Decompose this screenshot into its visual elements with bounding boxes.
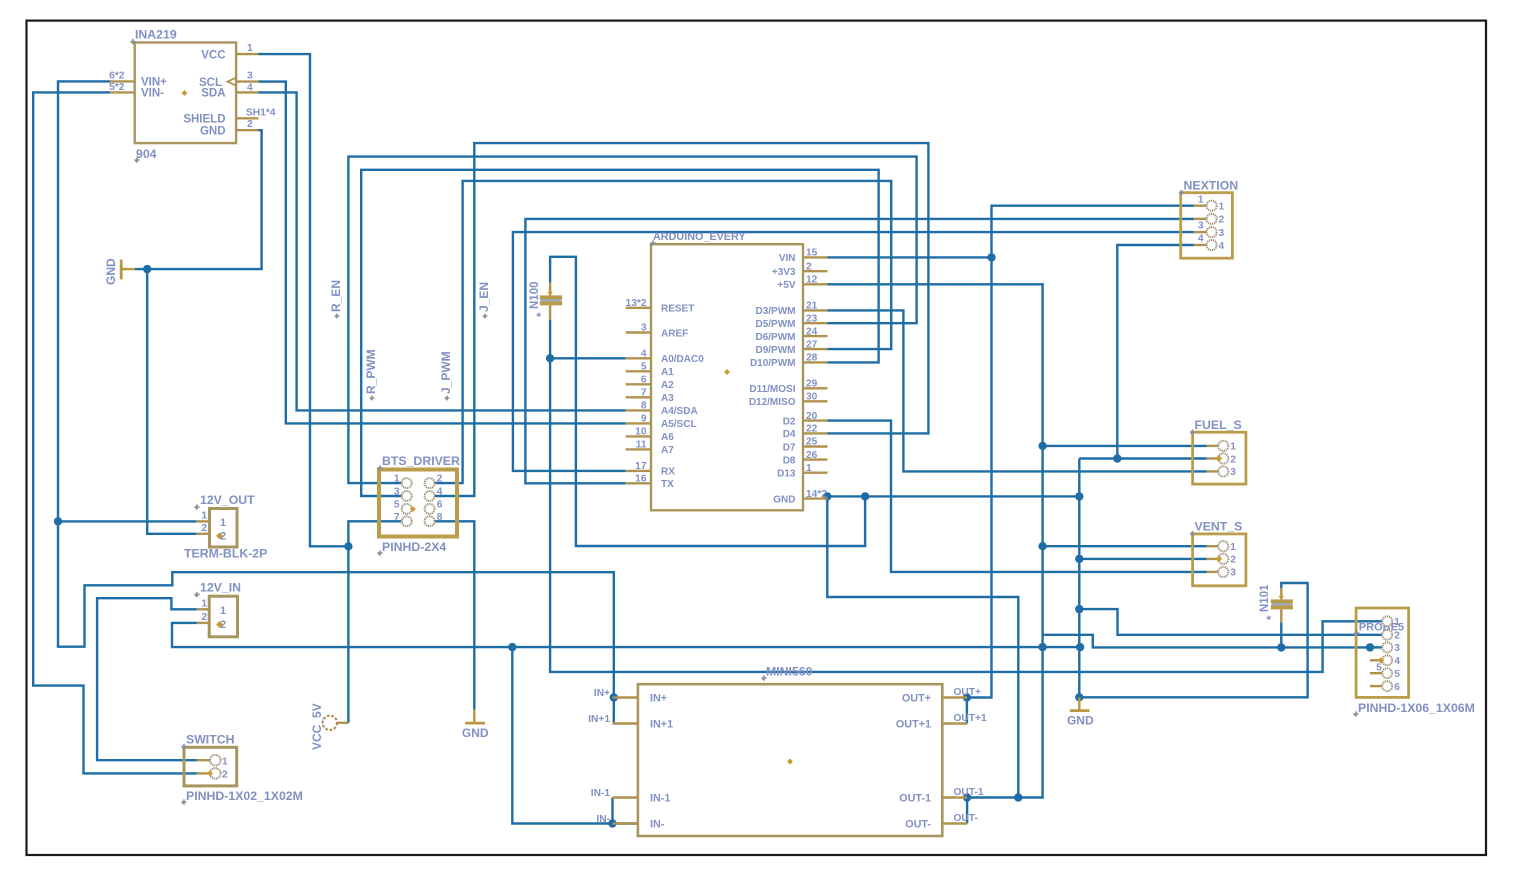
BTS_DRIVER pad pin2	[425, 478, 435, 488]
ARDUINO pin RESET stub	[626, 307, 651, 309]
wire GND branch to 12V_OUT pin2	[147, 269, 196, 534]
ARDUINO pin D9/PWM stub	[803, 348, 828, 350]
FUEL_S title	[1190, 418, 1242, 435]
svg-text:3: 3	[1219, 228, 1225, 239]
junction GND long row mid	[1038, 643, 1046, 651]
ARDUINO pin A1 stub	[626, 370, 651, 372]
VENT_S pin number 2	[1230, 555, 1236, 566]
ARDUINO pin name D2	[783, 416, 796, 427]
svg-text:1: 1	[247, 43, 253, 54]
svg-text:5: 5	[1376, 662, 1382, 673]
wire Arduino GND pin row	[827, 495, 1079, 497]
svg-text:1: 1	[1394, 617, 1400, 628]
VENT_S pin1 lead	[1207, 545, 1219, 547]
svg-text:2: 2	[1394, 631, 1400, 642]
SWITCH pin number 2	[222, 770, 228, 781]
junction OUT-1	[963, 793, 971, 801]
FUEL_S pin3 lead	[1207, 470, 1219, 472]
svg-text:VIN-: VIN-	[141, 88, 164, 100]
ARDUINO pin D5/PWM stub	[803, 322, 828, 324]
svg-text:3: 3	[1230, 568, 1236, 579]
NEXTION title	[1179, 179, 1238, 196]
MINI560 pin name OUT+	[902, 693, 931, 705]
svg-text:4: 4	[641, 349, 647, 360]
12V_OUT pin label 1 inside	[220, 517, 226, 529]
MINI560 pin name OUT+1	[896, 719, 931, 731]
svg-text:D6/PWM: D6/PWM	[756, 332, 796, 343]
ARDUINO pin name D11/MOSI	[749, 384, 795, 395]
svg-text:OUT-1: OUT-1	[954, 787, 984, 798]
svg-text:3: 3	[641, 323, 647, 334]
svg-text:7: 7	[394, 512, 400, 523]
svg-text:5: 5	[1394, 669, 1400, 680]
BTS_DRIVER pad pin7	[402, 516, 412, 526]
wire A0 row	[550, 357, 626, 359]
svg-text:J_PWM: J_PWM	[439, 351, 453, 394]
MINI560 title	[761, 665, 812, 681]
INA219 pin number 3	[247, 71, 253, 82]
svg-text:OUT+: OUT+	[902, 693, 931, 705]
svg-text:29: 29	[806, 379, 818, 390]
svg-text:20: 20	[806, 411, 818, 422]
BTS_DRIVER pin number 4	[437, 487, 443, 498]
svg-text:D5/PWM: D5/PWM	[756, 319, 796, 330]
INA219 pin VCC stub	[236, 53, 258, 55]
wire FUEL_S pin2 row	[1079, 457, 1207, 459]
VENT_S pin number 1	[1230, 542, 1236, 553]
ground symbol mid	[465, 710, 485, 723]
BTS_DRIVER pad pin5	[402, 504, 412, 514]
IC U1 INA219 body	[135, 43, 236, 144]
ARDUINO pin number 14*2	[806, 489, 827, 500]
ARDUINO pin number 27	[806, 339, 818, 350]
INA219 pin GND stub	[236, 129, 258, 131]
FUEL_S pad pin2	[1218, 453, 1228, 463]
ARDUINO pin number 13*2	[626, 298, 647, 309]
wire A0 net vertical to PROBE pin1	[550, 320, 1382, 672]
svg-text:8: 8	[437, 512, 443, 523]
svg-text:3: 3	[1394, 643, 1400, 654]
svg-text:IN-: IN-	[596, 814, 610, 825]
ARDUINO pin A7 stub	[626, 448, 651, 450]
svg-text:OUT+: OUT+	[954, 687, 982, 698]
MINI560 pin IN+ stub	[613, 696, 638, 698]
wire +5V net (+5V pin down to OUT-1 row)	[828, 284, 1043, 797]
svg-text:7: 7	[641, 388, 647, 399]
svg-text:16: 16	[635, 474, 647, 485]
ARDUINO pin name A4/SDA	[661, 406, 698, 417]
PROBE pad pin1	[1382, 616, 1392, 626]
12V_IN origin mark	[216, 621, 223, 628]
wire D2 to VENT_S pin3	[828, 421, 1207, 572]
NEXTION pad pin1	[1207, 201, 1217, 211]
svg-text:4: 4	[1394, 656, 1400, 667]
capacitor N100 plates	[540, 295, 562, 305]
ARDUINO pin name D6/PWM	[756, 332, 796, 343]
svg-text:PINHD-1X02_1X02M: PINHD-1X02_1X02M	[186, 789, 303, 803]
ARDUINO pin number 24	[806, 326, 818, 337]
wire RX to NEXTION pin3	[513, 232, 1194, 471]
wire SCL net INA219 to A5	[259, 82, 626, 424]
MINI560 net label IN+1	[588, 714, 610, 725]
BTS_DRIVER pin number 7	[394, 512, 400, 523]
PROBE pad pin3	[1382, 642, 1392, 652]
svg-text:D3/PWM: D3/PWM	[756, 306, 796, 317]
svg-text:2: 2	[806, 261, 812, 272]
MINI560 net label OUT-	[954, 813, 978, 824]
BTS_DRIVER pin number 2	[437, 474, 443, 485]
svg-text:D2: D2	[783, 416, 796, 427]
svg-text:D4: D4	[783, 429, 796, 440]
svg-text:VIN: VIN	[779, 253, 796, 264]
junction PROBE pin3	[1366, 643, 1374, 651]
wire 12V_OUT pin1 row	[58, 520, 196, 522]
ARDUINO pin name D13	[777, 469, 796, 480]
ARDUINO pin name A6	[661, 432, 674, 443]
wire IN- to IN-1	[611, 798, 613, 824]
svg-text:+3V3: +3V3	[772, 267, 796, 278]
svg-text:5: 5	[394, 499, 400, 510]
svg-text:OUT-1: OUT-1	[899, 793, 931, 805]
MINI560 net label IN-1	[591, 788, 611, 799]
svg-text:A5/SCL: A5/SCL	[661, 419, 697, 430]
capacitor N101 plates	[1271, 599, 1293, 609]
svg-text:8: 8	[641, 401, 647, 412]
svg-text:4: 4	[247, 82, 253, 93]
wire GND to PROBE pin2	[1079, 609, 1382, 635]
wire GND long row from 12V_IN pin2	[172, 623, 1080, 647]
svg-text:5*2: 5*2	[109, 82, 125, 93]
ARDUINO pin A0/DAC0 stub	[626, 357, 651, 359]
svg-text:14*2: 14*2	[806, 489, 827, 500]
svg-text:2: 2	[222, 770, 228, 781]
svg-text:13*2: 13*2	[626, 298, 647, 309]
svg-text:1: 1	[1198, 194, 1204, 205]
svg-text:3: 3	[1198, 221, 1204, 232]
N100 label	[529, 282, 541, 310]
svg-text:30: 30	[806, 392, 818, 403]
svg-text:BTS_DRIVER: BTS_DRIVER	[382, 454, 460, 468]
svg-text:2: 2	[437, 474, 443, 485]
connector X1 12V_OUT body	[210, 509, 238, 548]
N101 label	[1259, 584, 1271, 612]
NEXTION pin number 3 left	[1198, 221, 1204, 232]
ARDUINO pin D12/MISO stub	[803, 400, 828, 402]
PROBE pin number 5 left	[1376, 662, 1382, 673]
NEXTION pin number 3 right	[1219, 228, 1225, 239]
ARDUINO pin D8 stub	[803, 458, 828, 460]
svg-text:RESET: RESET	[661, 304, 694, 315]
svg-text:A2: A2	[661, 380, 674, 391]
ARDUINO pin A6 stub	[626, 435, 651, 437]
svg-text:TERM-BLK-2P: TERM-BLK-2P	[184, 547, 267, 561]
ARDUINO pin name VIN	[779, 253, 796, 264]
junction IN- branch	[508, 643, 516, 651]
svg-text:D12/MISO: D12/MISO	[749, 397, 796, 408]
junction GND PROBE2 feed	[1075, 605, 1083, 613]
ARDUINO pin name D12/MISO	[749, 397, 796, 408]
ground label left	[104, 258, 118, 285]
wire VCC_5V symbol riser	[347, 546, 349, 723]
N101 bottom lead	[1280, 609, 1282, 622]
PROBE pin number 6 right	[1394, 682, 1400, 693]
INA219 pin number 2	[247, 119, 253, 130]
ARDUINO pin number 16	[635, 474, 647, 485]
FUEL_S origin mark	[1215, 455, 1222, 462]
svg-text:1: 1	[1219, 202, 1225, 213]
svg-text:OUT+1: OUT+1	[954, 713, 987, 724]
12V_OUT pin1 stub	[196, 520, 209, 522]
junction Arduino GND row left	[861, 492, 869, 500]
svg-text:D13: D13	[777, 469, 796, 480]
PROBE pin6 stub	[1370, 685, 1382, 687]
svg-text:GND: GND	[462, 726, 489, 740]
svg-text:27: 27	[806, 339, 818, 350]
12V_IN pin1 stub	[197, 608, 209, 610]
VENT_S pad pin3	[1218, 567, 1228, 577]
ARDUINO pin number 26	[806, 450, 818, 461]
junction GND left	[143, 265, 151, 273]
supply symbol VCC_5V	[323, 716, 349, 730]
junction A0	[546, 354, 554, 362]
svg-text:+5V: +5V	[777, 280, 795, 291]
NEXTION pin number 4 right	[1219, 241, 1225, 252]
junction FUEL1	[1038, 442, 1046, 450]
svg-text:R_EN: R_EN	[329, 280, 343, 312]
svg-text:21: 21	[806, 301, 818, 312]
junction GND right row	[1075, 492, 1083, 500]
svg-text:6: 6	[641, 375, 647, 386]
svg-text:*: *	[536, 312, 548, 317]
ARDUINO pin number 22	[806, 424, 818, 435]
PROBE pin number 4 right	[1394, 656, 1400, 667]
FUEL_S pin2 lead	[1207, 457, 1219, 459]
svg-text:2: 2	[1219, 215, 1225, 226]
MINI560 net label OUT+1	[954, 713, 987, 724]
svg-text:25: 25	[806, 437, 818, 448]
ARDUINO pin number 12	[806, 275, 818, 286]
FUEL_S pin1 lead	[1207, 445, 1219, 447]
ARDUINO pin RX stub	[626, 470, 651, 472]
ARDUINO pin D13 stub	[803, 472, 828, 474]
ARDUINO pin name A7	[661, 445, 674, 456]
ground label mid	[462, 726, 489, 740]
MINI560 net label OUT-1	[954, 787, 984, 798]
junction VIN	[987, 253, 995, 261]
wire N100 top to GND row	[550, 257, 865, 546]
svg-text:3: 3	[394, 487, 400, 498]
MINI560 pin name IN-	[650, 819, 665, 831]
12V_IN pin number 1 outside	[201, 599, 207, 610]
ARDUINO pin name RX	[661, 467, 675, 478]
svg-text:GND: GND	[200, 125, 226, 137]
svg-text:26: 26	[806, 450, 818, 461]
ground symbol left	[121, 260, 135, 280]
svg-text:6: 6	[1394, 682, 1400, 693]
N100 origin mark	[548, 290, 553, 295]
junction GND VENT2	[1075, 555, 1083, 563]
svg-text:1: 1	[222, 757, 228, 768]
BTS_DRIVER pad pin6	[425, 504, 435, 514]
svg-text:17: 17	[635, 461, 647, 472]
ARDUINO pin number 17	[635, 461, 647, 472]
ARDUINO pin D10/PWM stub	[803, 361, 828, 363]
ARDUINO pin number 28	[806, 353, 818, 364]
wire jog to PROBE pin3	[1043, 635, 1370, 648]
MINI560 pin name IN+1	[650, 719, 673, 731]
ARDUINO pin D4 stub	[803, 432, 828, 434]
svg-text:J_EN: J_EN	[477, 282, 491, 312]
MINI560 net label IN-	[596, 814, 610, 825]
NEXTION pad pin2	[1207, 214, 1217, 224]
12V_IN pin label 2 inside	[220, 619, 226, 631]
PROBE pin4 stub	[1370, 659, 1382, 661]
VENT_S origin mark	[1215, 556, 1222, 563]
ARDUINO origin mark	[724, 369, 730, 375]
INA219 pin name GND	[200, 125, 226, 137]
N100 top lead	[549, 283, 551, 296]
NEXTION pad pin4	[1207, 240, 1217, 250]
net label R_PWM	[364, 349, 378, 400]
svg-text:2: 2	[201, 612, 207, 623]
svg-text:GND: GND	[104, 258, 118, 285]
INA219 pin SDA stub	[236, 91, 258, 93]
IC U2 ARDUINO_EVERY body	[651, 244, 803, 510]
NEXTION pin number 1 right	[1219, 202, 1225, 213]
ARDUINO pin name D5/PWM	[756, 319, 796, 330]
INA219 pin name VIN+	[141, 77, 167, 89]
NEXTION pin number 2 right	[1219, 215, 1225, 226]
svg-text:SHIELD: SHIELD	[183, 114, 225, 126]
svg-text:3: 3	[1230, 467, 1236, 478]
wire D4 to J_PWM to BTS pin4	[435, 143, 929, 496]
12V_OUT pin label 2 inside	[220, 531, 226, 543]
svg-text:GND: GND	[1067, 714, 1094, 728]
ARDUINO pin number 21	[806, 301, 818, 312]
wire INA219 GND pin2 to GND symbol	[135, 130, 262, 269]
wire FUEL_S pin1 row	[1043, 445, 1207, 447]
12V_IN title	[194, 581, 241, 598]
ARDUINO pin name AREF	[661, 328, 688, 339]
ARDUINO pin A5/SCL stub	[626, 422, 651, 424]
net label R_EN	[329, 280, 343, 318]
svg-text:D10/PWM: D10/PWM	[750, 358, 796, 369]
N100 bottom lead	[549, 305, 551, 319]
svg-text:D8: D8	[783, 455, 796, 466]
svg-text:6*2: 6*2	[109, 70, 125, 81]
ARDUINO pin TX stub	[626, 482, 651, 484]
ARDUINO pin VIN stub	[803, 256, 828, 258]
wire N101 bottom lead	[1280, 622, 1282, 647]
ARDUINO pin name D7	[783, 442, 796, 453]
INA219 pin number SH1*4	[246, 107, 276, 118]
svg-text:1: 1	[201, 511, 207, 522]
N101 origin mark	[1279, 594, 1284, 599]
ARDUINO pin number 6	[641, 375, 647, 386]
wire VENT_S pin1 row	[1043, 545, 1207, 547]
ARDUINO pin number 4	[641, 349, 647, 360]
connector J1 BTS_DRIVER body	[379, 470, 457, 537]
svg-text:1: 1	[1230, 442, 1236, 453]
ARDUINO pin name D3/PWM	[756, 306, 796, 317]
svg-text:RX: RX	[661, 467, 675, 478]
ARDUINO pin number 3	[641, 323, 647, 334]
svg-text:VCC: VCC	[201, 49, 225, 61]
MINI560 pin name IN-1	[650, 793, 670, 805]
svg-text:D9/PWM: D9/PWM	[756, 345, 796, 356]
module U3 MINI560 body	[638, 684, 942, 836]
ARDUINO pin number 30	[806, 392, 818, 403]
svg-text:4: 4	[437, 487, 443, 498]
INA219 pin number 1	[247, 43, 253, 54]
PROBE pad pin5	[1382, 668, 1392, 678]
wire D3 to FUEL_S pin3	[828, 310, 1207, 471]
ARDUINO pin name D9/PWM	[756, 345, 796, 356]
supply label VCC_5V	[310, 703, 324, 750]
INA219 pin number 6*2	[109, 70, 125, 81]
FUEL_S pin number 3	[1230, 467, 1236, 478]
ARDUINO pin GND stub	[803, 497, 828, 499]
ARDUINO pin name A2	[661, 380, 674, 391]
svg-text:10: 10	[635, 427, 647, 438]
BTS_DRIVER title	[377, 454, 460, 471]
wire 12V_IN pin1 to SWITCH pin1	[97, 598, 197, 760]
ARDUINO pin name +3V3	[772, 267, 796, 278]
MINI560 pin OUT-1 stub	[942, 796, 967, 798]
NEXTION pad pin3	[1207, 227, 1217, 237]
svg-text:1: 1	[201, 599, 207, 610]
MINI560 pin name OUT-1	[899, 793, 931, 805]
wire INA219 VCC to 5V node	[259, 54, 349, 546]
svg-text:12V_OUT: 12V_OUT	[200, 493, 255, 507]
svg-text:1: 1	[806, 463, 812, 474]
junction 5V node	[344, 542, 352, 550]
svg-text:5: 5	[641, 362, 647, 373]
ARDUINO pin D11/MOSI stub	[803, 387, 828, 389]
ARDUINO pin name A1	[661, 367, 674, 378]
connector J3 FUEL_S body	[1193, 432, 1246, 484]
svg-text:1: 1	[1230, 542, 1236, 553]
svg-text:IN+1: IN+1	[588, 714, 610, 725]
PROBE pin number 2 right	[1394, 631, 1400, 642]
svg-text:904: 904	[136, 147, 157, 161]
PROBE value PINHD-1X06_1X06M	[1353, 701, 1474, 717]
INA219 pin number 4	[247, 82, 253, 93]
ARDUINO pin number 8	[641, 401, 647, 412]
NEXTION pin4 lead	[1194, 244, 1207, 246]
ARDUINO pin A4/SDA stub	[626, 409, 651, 411]
BTS_DRIVER value PINHD-2X4	[377, 540, 446, 556]
MINI560 pin OUT- stub	[942, 822, 967, 824]
ARDUINO pin name D10/PWM	[750, 358, 796, 369]
wire VIN+ net (INA219 VIN+ to 12V_OUT-1 and MINI560 IN+)	[58, 81, 614, 723]
ARDUINO pin A2 stub	[626, 383, 651, 385]
junction GND stub	[823, 492, 831, 500]
NEXTION pin3 lead	[1194, 231, 1207, 233]
12V_IN pin number 2 outside	[201, 612, 207, 623]
NEXTION pin number 1 left	[1198, 194, 1204, 205]
INA219 pin name SHIELD	[183, 114, 225, 126]
junction MINI560 IN+	[610, 693, 618, 701]
connector J5 PROBE body	[1356, 608, 1409, 697]
ARDUINO pin name D8	[783, 455, 796, 466]
wire D5/PWM to R_EN to BTS pin1	[348, 157, 916, 484]
BTS_DRIVER pad pin8	[425, 516, 435, 526]
NEXTION pin1 lead	[1194, 204, 1207, 206]
wire VIN row	[828, 256, 992, 258]
ARDUINO title	[650, 231, 746, 246]
svg-text:6: 6	[437, 499, 443, 510]
